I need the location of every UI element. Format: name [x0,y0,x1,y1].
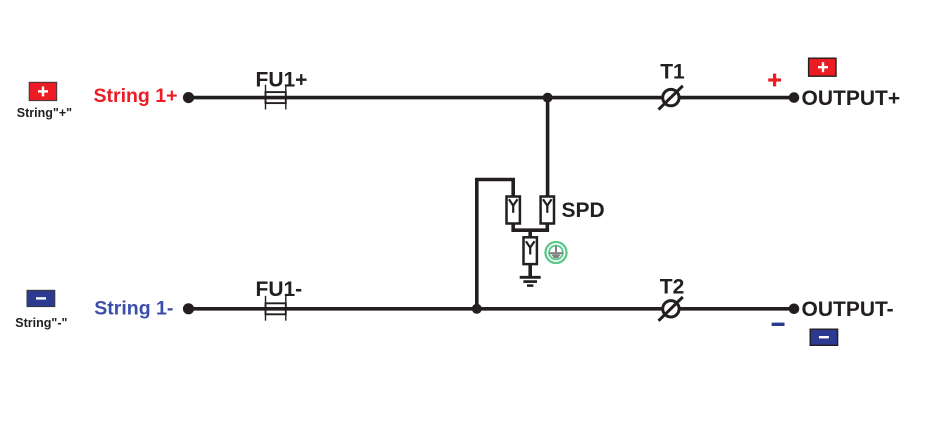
wire top bus String1+ to OUTPUT+ [189,96,795,100]
node dot left bottom [183,303,194,314]
wire SPD elbow from bottom junction [477,180,513,309]
svg-text:T1: T1 [660,61,685,84]
svg-text:String 1+: String 1+ [94,85,178,107]
svg-text:String"+": String"+" [17,106,72,120]
fuse FU1+ [266,85,286,110]
terminal icon plus red box top-right [809,58,836,76]
svg-text:String"-": String"-" [15,316,67,330]
disconnect T2 [659,297,683,321]
svg-text:OUTPUT-: OUTPUT- [802,298,894,321]
terminal icon minus blue box bottom-right [810,329,837,345]
varistor MOV left [507,197,520,224]
fuse FU1- [266,296,286,321]
wire SPD drop from top junction [546,98,550,197]
polarity minus blue near OUTPUT- [772,323,785,326]
wire stub lower MOV to ground [528,263,532,276]
varistor MOV lower [524,237,537,264]
ground [520,277,541,285]
svg-text:FU1+: FU1+ [256,69,308,92]
terminal icon plus red box top-left [29,82,57,100]
disconnect T1 [659,86,683,110]
polarity plus red near OUTPUT+ [768,74,781,87]
node dot right bottom [789,304,800,315]
varistor MOV right [541,197,554,224]
junction dot bottom bus [472,304,482,314]
earth icon green [546,242,567,263]
svg-text:T2: T2 [660,275,685,298]
node dot right top [789,92,800,103]
wire bottom bus String1- to OUTPUT- [189,307,795,311]
node dot left top [183,92,194,103]
terminal icon minus blue box bottom-left [27,290,55,306]
svg-text:String 1-: String 1- [94,297,173,319]
svg-text:FU1-: FU1- [256,278,303,301]
svg-text:SPD: SPD [562,199,605,222]
wire stub to lower MOV [528,230,532,238]
wire MOV bottom tee [513,222,547,230]
svg-text:OUTPUT+: OUTPUT+ [802,87,901,110]
junction dot top bus [543,93,553,103]
